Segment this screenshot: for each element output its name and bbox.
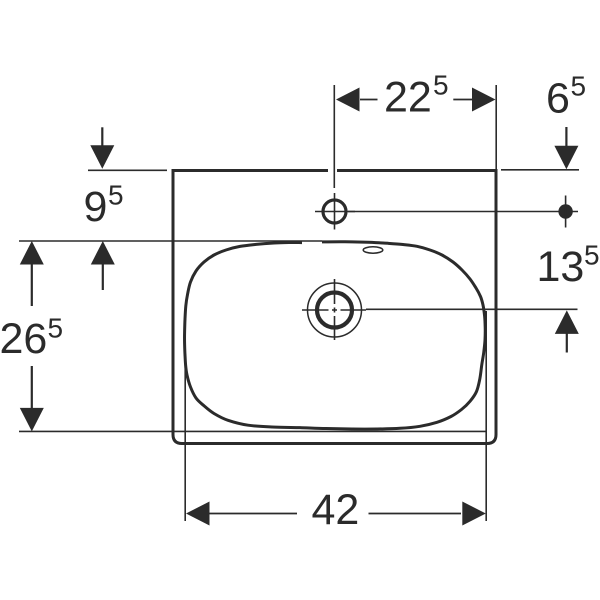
dim 9.5 up arrow: [91, 241, 115, 265]
drain center mark: [332, 308, 337, 313]
washbasin outer rim outline: [173, 171, 496, 444]
dim 42 right arrow: [462, 502, 486, 526]
dim 22.5 left extension line: [333, 85, 335, 188]
drain hole ring: [317, 293, 352, 328]
svg-text:5: 5: [571, 71, 587, 102]
dim 42 left extension line: [184, 311, 186, 521]
dim 42 left arrow: [186, 502, 210, 526]
dim 9.5 tick line: [88, 169, 167, 171]
svg-text:5: 5: [108, 180, 124, 211]
faucet hole centerline vertical: [334, 193, 336, 230]
svg-text:42: 42: [312, 486, 360, 534]
dim 13.5 arrow shaft: [566, 333, 568, 353]
dim 9.5 up arrow shaft: [102, 262, 104, 290]
drain outer circle: [308, 283, 362, 337]
dim 42 right extension line: [485, 311, 487, 521]
label 6.5: [546, 71, 586, 123]
label 9.5: [84, 180, 124, 232]
label 13.5: [537, 240, 600, 292]
drain level line: [366, 308, 578, 310]
dim 26.5 down arrow: [20, 408, 44, 432]
svg-text:5: 5: [48, 312, 64, 343]
dim 22.5 right arrow: [472, 88, 496, 112]
dim 9.5 down arrow: [90, 145, 114, 169]
label 42: [312, 486, 360, 534]
dim 22.5 line: [360, 99, 472, 101]
bowl bottom tangent line: [19, 430, 487, 432]
faucet hole: [323, 200, 346, 223]
dim 26.5 shaft lower: [31, 366, 33, 410]
svg-text:22: 22: [384, 74, 432, 122]
dim 26.5 shaft upper: [31, 262, 33, 306]
drain centerline horizontal: [302, 309, 366, 311]
dim 6.5 arrow: [554, 146, 578, 170]
inner bowl outline: [185, 242, 486, 429]
faucet level line to dot: [348, 211, 578, 213]
svg-text:13: 13: [537, 243, 585, 291]
dim 13.5 up arrow: [555, 310, 579, 334]
faucet hole centerline horizontal: [315, 211, 355, 213]
svg-text:6: 6: [546, 75, 570, 123]
overflow slot: [363, 247, 383, 253]
svg-text:26: 26: [0, 315, 47, 363]
dim 42 line: [210, 513, 462, 515]
bowl top tangent line: [19, 240, 322, 242]
svg-text:5: 5: [433, 70, 449, 101]
svg-text:9: 9: [84, 183, 108, 231]
dim 13.5 dot: [558, 204, 572, 218]
label 22.5: [384, 70, 449, 122]
dim 6.5 tick line: [501, 169, 579, 171]
label 26.5: [0, 312, 63, 363]
dim 6.5 arrow shaft: [565, 127, 567, 148]
drain centerline vertical: [334, 279, 336, 340]
dim 9.5 down arrow shaft: [101, 127, 103, 148]
dim 22.5 right extension line: [495, 85, 497, 172]
svg-text:5: 5: [584, 240, 600, 271]
dim 13.5 dot centerline: [565, 196, 567, 228]
dim 26.5 up arrow: [20, 241, 44, 265]
dim 22.5 left arrow: [336, 88, 360, 112]
